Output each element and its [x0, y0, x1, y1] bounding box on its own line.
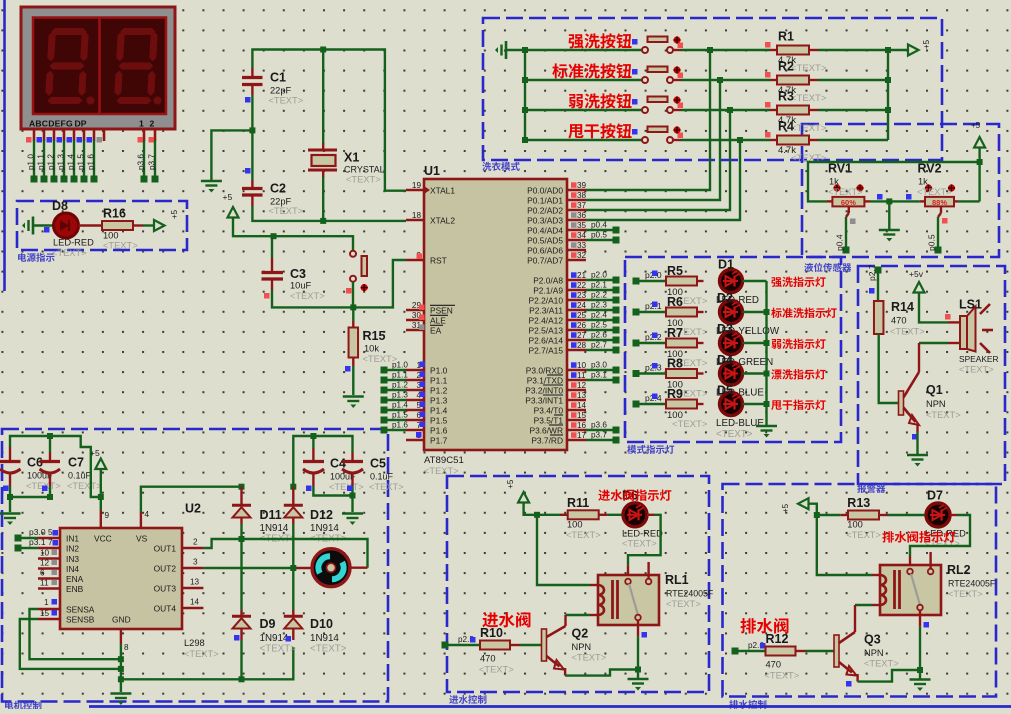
- speaker LS1: [945, 298, 999, 375]
- svg-text:<TEXT>: <TEXT>: [310, 644, 347, 655]
- svg-text:Q3: Q3: [864, 633, 881, 647]
- LED D4: [716, 353, 764, 399]
- wire: [877, 270, 879, 301]
- junction (button bus row 2): [522, 77, 528, 83]
- svg-text:P0.3/AD3: P0.3/AD3: [527, 216, 563, 226]
- svg-text:X1: X1: [344, 151, 359, 165]
- wire (C6/C7 gnd): [7, 494, 53, 512]
- label 排水阀: [740, 618, 788, 634]
- svg-text:7: 7: [48, 538, 53, 547]
- wire / node p1.4: [67, 140, 78, 183]
- svg-text:22: 22: [577, 281, 587, 290]
- wire / node p0.4 (U1): [586, 221, 620, 234]
- svg-text:ENB: ENB: [66, 584, 84, 594]
- wire (P0.3 to button row): [586, 140, 740, 220]
- junction (net column): [717, 77, 723, 83]
- wire (P0.1 to button row): [586, 80, 720, 200]
- label 进水阀: [482, 612, 530, 628]
- svg-text:P1.4: P1.4: [430, 406, 448, 416]
- svg-text:P2.2/A10: P2.2/A10: [529, 296, 564, 306]
- svg-text:10: 10: [40, 549, 50, 558]
- wire / node p2.2 (U1): [586, 291, 620, 304]
- ground (crystal): [201, 181, 222, 193]
- junction (C5 gnd): [350, 493, 356, 499]
- svg-text:p1.3: p1.3: [392, 391, 408, 400]
- resistor R2: [765, 60, 827, 105]
- svg-text:SPEAKER: SPEAKER: [959, 354, 999, 364]
- svg-text:p1.5: p1.5: [392, 411, 408, 420]
- wire: [445, 644, 480, 646]
- svg-text:OUT4: OUT4: [154, 604, 177, 614]
- svg-text:+5: +5: [971, 121, 981, 130]
- svg-text:60%: 60%: [841, 198, 856, 207]
- svg-text:8: 8: [124, 643, 129, 652]
- svg-text:RTE24005F: RTE24005F: [666, 589, 714, 599]
- wire (relay common to gnd): [637, 636, 639, 669]
- svg-text:<TEXT>: <TEXT>: [346, 175, 381, 185]
- svg-text:<TEXT>: <TEXT>: [948, 589, 983, 599]
- svg-text:P3.4/T0: P3.4/T0: [534, 406, 564, 416]
- wire (C4/C5 top rail): [293, 436, 352, 487]
- svg-text:p2.5: p2.5: [591, 321, 607, 330]
- wire / node p1.0 (U1): [381, 361, 426, 374]
- svg-text:p3.0: p3.0: [29, 527, 46, 537]
- wire (+5 bus): [887, 50, 889, 140]
- wire (led gnd bus): [765, 281, 767, 425]
- svg-text:<TEXT>: <TEXT>: [666, 599, 701, 609]
- wire (D12 to D10 column): [292, 518, 294, 616]
- svg-text:P2.3/A11: P2.3/A11: [529, 306, 563, 316]
- wire: [743, 342, 767, 344]
- diode D11 1N914: [232, 487, 296, 545]
- wire / node p1.1 (U1): [381, 371, 426, 384]
- wire: [673, 49, 770, 51]
- svg-text:p2.2: p2.2: [591, 291, 607, 300]
- ground (RL2): [910, 670, 931, 691]
- region box: alarm/speaker: [857, 266, 1005, 493]
- svg-text:11: 11: [577, 371, 586, 380]
- wire / node p1.6: [87, 140, 98, 183]
- node p3.1 (IN2): [15, 537, 59, 552]
- svg-text:P2.4/A12: P2.4/A12: [529, 316, 564, 326]
- wire (D11 to D9 column): [240, 518, 242, 616]
- svg-text:P0.5/AD5: P0.5/AD5: [527, 236, 563, 246]
- pushbutton row 3: [642, 96, 683, 113]
- resistor R8: [666, 357, 708, 400]
- svg-text:24: 24: [577, 301, 587, 310]
- capacitor C3: [262, 236, 354, 307]
- region box: level sensors: [802, 124, 999, 272]
- svg-text:Q1: Q1: [926, 383, 943, 397]
- svg-text:IN3: IN3: [66, 554, 79, 564]
- svg-text:D2: D2: [717, 291, 733, 305]
- svg-text:22pF: 22pF: [270, 86, 292, 96]
- marker (Q3 emitter): [846, 681, 852, 687]
- LED D5: [716, 384, 764, 441]
- wire (OUT2 to motor): [203, 567, 311, 569]
- wire (emitter to gnd): [565, 670, 638, 676]
- svg-text:P1.0: P1.0: [430, 366, 448, 376]
- diode D10 1N914: [284, 616, 347, 654]
- junction (gnd node): [118, 656, 124, 682]
- svg-text:14: 14: [190, 598, 200, 607]
- svg-text:1k: 1k: [918, 177, 928, 187]
- svg-text:Q2: Q2: [572, 627, 589, 641]
- svg-text:p0.5: p0.5: [591, 231, 607, 240]
- svg-text:R1: R1: [778, 30, 794, 44]
- svg-text:P2.6/A14: P2.6/A14: [529, 336, 564, 346]
- pushbutton (reset): [346, 251, 368, 294]
- wire (RV2 right to +5): [958, 200, 980, 202]
- svg-text:p0.4: p0.4: [835, 234, 845, 251]
- region box: power indicator: [17, 201, 187, 262]
- svg-text:88%: 88%: [932, 198, 947, 207]
- svg-text:RL2: RL2: [947, 563, 971, 577]
- power +5 (RL1): [506, 479, 537, 515]
- svg-text:R3: R3: [778, 90, 794, 104]
- svg-text:p1.4: p1.4: [67, 154, 76, 170]
- svg-text:+5: +5: [922, 39, 931, 49]
- svg-text:VCC: VCC: [94, 534, 112, 544]
- svg-text:P3.3/INT1: P3.3/INT1: [525, 396, 563, 406]
- svg-text:P1.1: P1.1: [430, 376, 448, 386]
- svg-text:36: 36: [577, 211, 587, 220]
- wire / node p2.1 (U1): [586, 281, 620, 294]
- svg-text:ALE: ALE: [430, 316, 446, 326]
- ground (RL1): [628, 670, 649, 691]
- svg-text:CRYSTAL: CRYSTAL: [344, 165, 385, 175]
- resistor R12: [765, 632, 806, 681]
- junction: [885, 47, 891, 113]
- resistor R1: [765, 30, 827, 75]
- svg-text:p3.6: p3.6: [591, 421, 607, 430]
- potentiometer RV2: [917, 162, 958, 224]
- region box: drain control: [723, 484, 997, 709]
- junction: [98, 494, 104, 500]
- junction (X1 top): [320, 47, 326, 53]
- label 标准洗按钮: [552, 63, 637, 78]
- wire (coil top): [537, 515, 598, 585]
- wire: [525, 79, 645, 81]
- pushbutton row 4: [642, 126, 683, 143]
- wire: [818, 139, 888, 141]
- svg-text:SENSA: SENSA: [66, 605, 95, 615]
- svg-text:<TEXT>: <TEXT>: [269, 206, 304, 216]
- svg-text:2: 2: [150, 119, 155, 129]
- ground (sensors): [879, 230, 900, 242]
- svg-text:+5v: +5v: [909, 269, 924, 279]
- wire / node p1.3 (U1): [381, 391, 426, 404]
- 7-segment display DISP1: [21, 7, 175, 141]
- svg-text:+5: +5: [506, 479, 515, 489]
- svg-text:P3.0/RXD: P3.0/RXD: [526, 366, 563, 376]
- svg-text:LED-RED: LED-RED: [622, 528, 663, 538]
- power +5 (U2 VCC): [90, 448, 106, 497]
- junction (D9 bottom bus): [239, 676, 245, 682]
- svg-text:13: 13: [577, 391, 587, 400]
- wire: [916, 432, 918, 454]
- wire: [673, 109, 770, 111]
- svg-text:P1.6: P1.6: [430, 426, 448, 436]
- junction: [764, 309, 770, 315]
- svg-text:R12: R12: [766, 632, 789, 646]
- ground (Q1): [907, 455, 928, 467]
- LED D1: [716, 258, 759, 307]
- svg-text:21: 21: [577, 271, 587, 280]
- resistor R10: [479, 626, 520, 675]
- svg-text:100: 100: [103, 231, 119, 241]
- resistor R6: [666, 295, 708, 338]
- wire / node p3.7 (U1): [586, 431, 620, 444]
- wire (P0.2 to button row): [586, 110, 730, 210]
- power +5 (reset): [223, 192, 354, 251]
- svg-text:11: 11: [40, 579, 49, 588]
- marker squares: [877, 194, 912, 200]
- svg-text:34: 34: [577, 231, 587, 240]
- display pin marker squares: [26, 137, 154, 143]
- junction (VS rail / D11): [239, 484, 245, 490]
- wire: [79, 224, 103, 226]
- svg-text:OUT1: OUT1: [154, 544, 177, 554]
- svg-text:23: 23: [577, 291, 587, 300]
- svg-text:33: 33: [577, 241, 587, 250]
- svg-text:p2.4: p2.4: [591, 311, 607, 320]
- svg-text:<TEXT>: <TEXT>: [67, 481, 102, 491]
- wire (to RST pin): [353, 260, 406, 307]
- svg-text:<TEXT>: <TEXT>: [369, 482, 404, 492]
- svg-text:p1.3: p1.3: [57, 154, 66, 170]
- svg-text:P0.2/AD2: P0.2/AD2: [527, 206, 563, 216]
- wire: [673, 79, 770, 81]
- region box: motor control: [2, 429, 388, 710]
- wire: [743, 311, 767, 313]
- ground (U2): [110, 679, 131, 705]
- power +5 (sensors): [971, 121, 985, 201]
- svg-text:<TEXT>: <TEXT>: [572, 653, 607, 663]
- svg-text:19: 19: [412, 181, 422, 190]
- marker (pin 8): [416, 432, 422, 438]
- svg-text:<TEXT>: <TEXT>: [329, 482, 364, 492]
- wire: [520, 644, 542, 646]
- junction: [764, 340, 770, 346]
- svg-text:D11: D11: [260, 508, 282, 522]
- label 弱洗指示灯: [771, 339, 825, 349]
- crystal X1: [308, 50, 385, 221]
- motor driver U2 L298: [38, 502, 219, 660]
- capacitor C7: [40, 436, 102, 497]
- ground (buttons): [495, 41, 525, 59]
- LED D6: [622, 488, 663, 548]
- relay RL2 RTE24005F: [880, 552, 996, 628]
- wire: [743, 403, 767, 405]
- capacitor C1: [242, 68, 303, 106]
- transistor Q2: [542, 626, 607, 676]
- svg-text:<TEXT>: <TEXT>: [917, 187, 952, 197]
- region box: water inlet control: [447, 476, 709, 704]
- svg-text:p1.2: p1.2: [47, 154, 56, 170]
- wire: [818, 49, 888, 51]
- wire (sensor top rail): [808, 162, 980, 201]
- capacitor C6: [0, 436, 61, 497]
- svg-text:C7: C7: [68, 456, 84, 470]
- wire: [673, 139, 770, 141]
- U1 left pins: [406, 181, 455, 446]
- wire: [818, 79, 888, 81]
- label 进水阀指示灯: [598, 489, 671, 501]
- region box: display (left edge): [3, 0, 6, 291]
- svg-text:32: 32: [577, 251, 587, 260]
- svg-text:GND: GND: [112, 615, 131, 625]
- svg-text:P1.7: P1.7: [430, 436, 448, 446]
- svg-text:ABCDEFG: ABCDEFG: [29, 119, 73, 129]
- svg-text:R15: R15: [363, 329, 386, 343]
- resistor R11: [560, 496, 608, 540]
- junction: [917, 667, 923, 673]
- svg-text:p3.0: p3.0: [591, 361, 607, 370]
- wire (button gnd bus): [524, 50, 526, 140]
- capacitor C5: [342, 452, 404, 512]
- resistor R15: [345, 307, 397, 395]
- mcu U1 AT89C51: [424, 164, 567, 476]
- capacitor C4: [303, 436, 364, 496]
- wire / node p2.5 (U1): [586, 321, 620, 334]
- wire / node p2.0 (U1): [586, 271, 620, 284]
- svg-text:p1.6: p1.6: [392, 421, 408, 430]
- wire: [818, 109, 888, 111]
- svg-text:C2: C2: [270, 182, 286, 196]
- svg-text:15: 15: [577, 411, 587, 420]
- wire (VCC pin 9): [101, 497, 110, 528]
- svg-text:2: 2: [193, 538, 198, 547]
- svg-text:p1.2: p1.2: [392, 381, 408, 390]
- junction: [635, 667, 641, 673]
- svg-text:RL1: RL1: [665, 573, 689, 587]
- svg-text:D5: D5: [717, 384, 733, 398]
- resistor R16: [102, 207, 143, 251]
- junction (button bus row 1): [522, 47, 528, 53]
- wire (vcc rail): [50, 436, 101, 497]
- wire (VS pin 4): [141, 487, 242, 528]
- ground (C6/C7): [0, 514, 21, 526]
- svg-text:p2.7: p2.7: [867, 264, 877, 281]
- svg-text:L298: L298: [184, 638, 205, 648]
- svg-text:<TEXT>: <TEXT>: [791, 63, 827, 74]
- svg-text:+5: +5: [170, 209, 179, 219]
- svg-text:12: 12: [40, 559, 50, 568]
- power +5 (D8): [143, 209, 179, 231]
- svg-text:<TEXT>: <TEXT>: [846, 530, 881, 540]
- ground (power indicator): [22, 217, 54, 235]
- svg-text:P3.6/WR: P3.6/WR: [529, 426, 563, 436]
- wire / node p0.4: [835, 217, 850, 254]
- label 甩干按钮: [568, 123, 637, 138]
- svg-text:p2.1: p2.1: [591, 281, 607, 290]
- svg-text:P3.7/RD: P3.7/RD: [531, 436, 563, 446]
- motor M1: [312, 549, 350, 587]
- svg-text:R2: R2: [778, 60, 794, 74]
- svg-text:<TEXT>: <TEXT>: [890, 327, 925, 337]
- junction (net column): [727, 107, 733, 113]
- wire / node p1.5 (U1): [381, 411, 426, 424]
- ground (leds): [756, 426, 777, 438]
- svg-text:26: 26: [577, 321, 587, 330]
- junction (X1 bottom): [320, 218, 326, 224]
- svg-text:P3.2/INT0: P3.2/INT0: [525, 386, 563, 396]
- svg-text:U2: U2: [185, 502, 201, 516]
- svg-text:R7: R7: [667, 326, 683, 340]
- wire (LED to relay contact): [910, 515, 970, 568]
- svg-text:1N914: 1N914: [310, 633, 339, 644]
- svg-text:OUT2: OUT2: [154, 564, 177, 574]
- svg-text:p1.1: p1.1: [37, 154, 46, 170]
- svg-text:+5: +5: [781, 503, 790, 513]
- svg-text:R6: R6: [667, 295, 683, 309]
- svg-text:XTAL2: XTAL2: [430, 216, 455, 226]
- svg-text:p0.5: p0.5: [927, 234, 937, 251]
- label 强洗按钮: [569, 33, 638, 48]
- LED D3: [716, 322, 773, 368]
- svg-text:+5: +5: [223, 192, 233, 202]
- svg-text:4: 4: [145, 510, 150, 519]
- resistor R3: [765, 90, 827, 135]
- svg-text:1: 1: [44, 598, 49, 607]
- label 排水阀指示灯: [882, 531, 955, 543]
- svg-text:12: 12: [577, 381, 587, 390]
- svg-text:C3: C3: [290, 267, 306, 281]
- wire: [525, 139, 645, 141]
- wire: [743, 280, 767, 282]
- svg-text:<TEXT>: <TEXT>: [716, 429, 753, 440]
- svg-text:D4: D4: [717, 353, 733, 367]
- svg-text:P0.0/AD0: P0.0/AD0: [527, 186, 563, 196]
- svg-text:13: 13: [190, 578, 200, 587]
- node p2.6: [732, 641, 766, 655]
- node p2.2 (led row): [633, 332, 667, 347]
- node p2.1 (led row): [633, 301, 667, 316]
- power +5v (speaker): [909, 269, 948, 322]
- wire: [735, 650, 766, 652]
- svg-text:p3.6: p3.6: [137, 154, 146, 170]
- junction (net column): [707, 47, 713, 53]
- svg-text:<TEXT>: <TEXT>: [672, 419, 708, 430]
- svg-text:22pF: 22pF: [270, 197, 292, 207]
- svg-text:C5: C5: [370, 457, 386, 471]
- svg-text:10k: 10k: [364, 344, 379, 354]
- svg-text:p1.4: p1.4: [392, 401, 408, 410]
- svg-text:<TEXT>: <TEXT>: [765, 671, 800, 681]
- junction / wire to ground: [211, 127, 255, 180]
- svg-text:p3.7: p3.7: [148, 154, 157, 170]
- svg-text:100: 100: [567, 520, 583, 530]
- svg-text:470: 470: [891, 316, 907, 326]
- resistor R4: [765, 120, 827, 165]
- svg-text:470: 470: [480, 654, 496, 664]
- svg-text:p1.6: p1.6: [87, 154, 96, 170]
- svg-text:10uF: 10uF: [290, 281, 312, 291]
- svg-text:28: 28: [577, 341, 587, 350]
- svg-text:27: 27: [577, 331, 587, 340]
- svg-text:P2.1/A9: P2.1/A9: [533, 286, 563, 296]
- svg-text:P1.3: P1.3: [430, 396, 448, 406]
- svg-text:R14: R14: [891, 300, 914, 314]
- wire: [251, 95, 253, 130]
- node p2.5: [442, 635, 476, 649]
- svg-text:<TEXT>: <TEXT>: [622, 538, 657, 548]
- wire / node p2.4 (U1): [586, 311, 620, 324]
- svg-text:<TEXT>: <TEXT>: [864, 659, 899, 669]
- svg-text:AT89C51: AT89C51: [424, 455, 464, 466]
- capacitor C2: [242, 130, 303, 216]
